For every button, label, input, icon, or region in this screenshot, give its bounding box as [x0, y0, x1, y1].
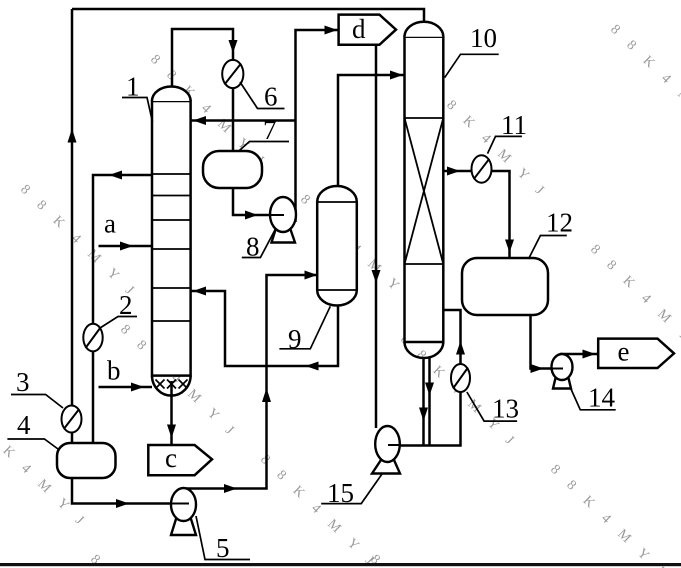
svg-text:8: 8 [246, 232, 260, 262]
svg-text:4: 4 [17, 410, 31, 440]
svg-text:2: 2 [119, 290, 133, 320]
svg-text:15: 15 [327, 478, 354, 508]
svg-text:9: 9 [288, 324, 302, 354]
svg-text:c: c [165, 443, 177, 473]
svg-text:e: e [618, 337, 630, 367]
svg-text:1: 1 [126, 72, 140, 102]
svg-text:6: 6 [264, 82, 278, 112]
svg-text:13: 13 [492, 394, 519, 424]
svg-text:b: b [107, 356, 121, 386]
svg-text:d: d [352, 14, 366, 44]
svg-text:7: 7 [263, 115, 277, 145]
svg-text:a: a [104, 209, 116, 239]
svg-text:11: 11 [501, 110, 527, 140]
svg-text:5: 5 [216, 533, 230, 563]
svg-text:14: 14 [588, 383, 616, 413]
svg-text:3: 3 [16, 367, 30, 397]
svg-text:12: 12 [546, 208, 573, 238]
svg-text:10: 10 [470, 23, 497, 53]
